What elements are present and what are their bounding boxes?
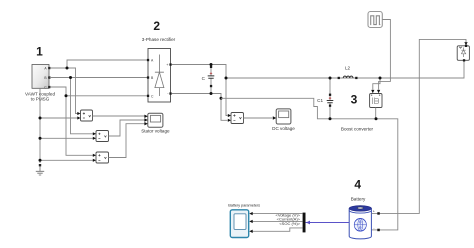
- wire rail to mosfet drain: [373, 78, 380, 90]
- svg-text:Battery parameters: Battery parameters: [228, 203, 260, 208]
- wire battery m bus: [306, 222, 350, 224]
- node neutral-VM2: [39, 137, 42, 140]
- svg-text:Battery: Battery: [351, 196, 366, 201]
- wire pulse to mosfet gate: [379, 20, 391, 90]
- wire phase A: [50, 60, 147, 114]
- diode D1: [457, 45, 469, 62]
- svg-text:4: 4: [354, 178, 361, 192]
- battery B1: [349, 206, 371, 239]
- node B tap: [69, 76, 72, 79]
- ground: [36, 164, 44, 175]
- svg-text:3-Phase rectifier: 3-Phase rectifier: [142, 37, 176, 42]
- arrow into diode top: [464, 42, 467, 45]
- voltage measurement VM2: [93, 131, 109, 142]
- wire battery minus: [372, 229, 381, 231]
- node cap C top: [210, 63, 213, 66]
- wire neutral: [40, 88, 93, 163]
- rectifier U1: [147, 49, 172, 103]
- node neutral-VM3: [39, 159, 42, 162]
- node minus: [220, 97, 223, 100]
- wire battery plus to diode: [372, 39, 467, 213]
- svg-text:DC voltage: DC voltage: [272, 126, 295, 131]
- svg-text:+: +: [373, 210, 375, 214]
- node mosfet source: [375, 117, 378, 120]
- svg-text:L2: L2: [345, 66, 351, 71]
- svg-text:2: 2: [153, 19, 160, 33]
- wire VM2 to scope: [109, 120, 145, 136]
- node mosfet drain tap: [379, 77, 382, 80]
- scope DC voltage: [272, 109, 295, 131]
- node A tap: [66, 67, 69, 70]
- capacitor C: [202, 65, 215, 94]
- subsystem VAWT coupled to PMSG: [25, 65, 55, 102]
- bus selector: [303, 213, 306, 233]
- scope Stator voltage: [141, 113, 170, 133]
- arrow into mosfet right: [377, 90, 380, 93]
- arrow into scope battery 2: [249, 220, 252, 223]
- battery minus port: [377, 229, 380, 232]
- wire Current signal: [252, 220, 303, 222]
- svg-text:<SOC (%)>: <SOC (%)>: [279, 221, 300, 226]
- wire rectifier plus: [172, 65, 228, 116]
- voltage measurement VM3: [93, 152, 109, 163]
- arrow into scope battery 1: [249, 212, 252, 215]
- pulse generator: [368, 12, 382, 28]
- node C1 top: [329, 77, 332, 80]
- svg-text:Stator voltage: Stator voltage: [141, 128, 170, 133]
- wire Voltage signal: [252, 213, 303, 215]
- wire mosfet source: [375, 108, 377, 119]
- battery plus port: [377, 212, 380, 215]
- node neutral-VM1: [39, 117, 42, 120]
- diode glyph inside rectifier: [155, 55, 164, 97]
- wire phase C: [50, 87, 147, 155]
- node cap C bottom: [210, 92, 213, 95]
- wire rectifier minus: [172, 94, 228, 121]
- scope Battery parameters: [228, 203, 260, 238]
- arrow into mosfet left: [371, 90, 374, 93]
- svg-text:3: 3: [351, 93, 358, 107]
- mosfet Q1: [370, 94, 382, 108]
- inductor L2: [338, 66, 358, 80]
- node C1 bottom: [329, 117, 332, 120]
- voltage measurement VM1: [77, 110, 92, 121]
- wire VM1 to scope: [93, 115, 145, 117]
- wire dc minus rail: [221, 98, 398, 230]
- wire VM4 to DC scope: [244, 117, 273, 119]
- node plus rail: [225, 77, 228, 80]
- wire SOC signal: [252, 228, 303, 231]
- wire phase B: [50, 78, 147, 134]
- svg-text:C1: C1: [317, 98, 323, 103]
- voltage measurement VM4 DC: [228, 113, 244, 124]
- svg-text:1: 1: [36, 45, 43, 59]
- wire VM3 to scope: [109, 124, 145, 158]
- arrow bus into selector: [306, 221, 310, 225]
- capacitor C1: [317, 78, 333, 119]
- arrow into scope battery 3: [249, 230, 252, 233]
- node C tap: [65, 94, 68, 97]
- wire dc plus rail: [226, 60, 464, 78]
- svg-text:-: -: [373, 226, 374, 230]
- svg-text:Boost converter: Boost converter: [341, 126, 374, 131]
